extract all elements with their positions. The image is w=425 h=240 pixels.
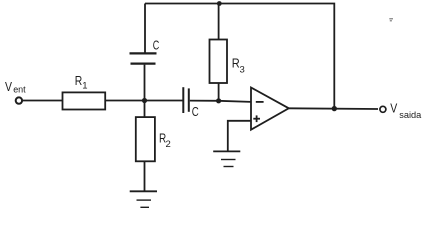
svg-text:V: V (5, 79, 12, 94)
svg-text:V: V (390, 101, 397, 116)
svg-text:saida: saida (399, 110, 421, 120)
svg-text:C: C (153, 38, 160, 53)
svg-text:R: R (75, 73, 83, 88)
svg-text:1: 1 (82, 81, 87, 92)
svg-text:ent: ent (13, 84, 26, 94)
svg-text:3: 3 (240, 65, 245, 76)
svg-text:2: 2 (166, 139, 171, 150)
svg-text:C: C (192, 104, 199, 119)
